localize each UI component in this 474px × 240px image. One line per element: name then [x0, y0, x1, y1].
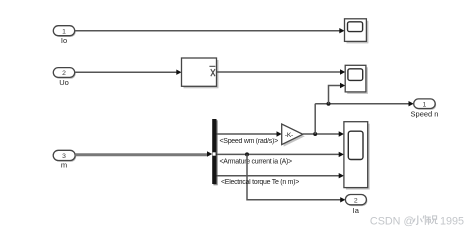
wire junction up to Speed n line: [314, 104, 316, 134]
mean block X-bar: [182, 58, 219, 88]
inport 3 (m): [53, 150, 76, 162]
junction on armature line: [245, 152, 249, 156]
inport 1 (Io): [53, 26, 75, 37]
wire mean block to Scope2 port1: [217, 69, 346, 74]
outport 1 (Speed n): [414, 99, 437, 110]
svg-text:<Speed wm (rad/s)>: <Speed wm (rad/s)>: [220, 138, 279, 145]
thick bus wire m to bus selector: [75, 151, 212, 156]
gain -K-: [282, 124, 305, 147]
svg-text:<Armature current ia (A)>: <Armature current ia (A)>: [220, 158, 293, 165]
svg-text:1: 1: [62, 28, 66, 35]
svg-text:Ia: Ia: [353, 206, 360, 215]
scope Scope1 (top): [345, 19, 369, 44]
junction on Speed n line: [327, 102, 331, 106]
wire Io to Scope1: [75, 28, 345, 33]
wire junction up to Scope2 port2: [329, 83, 346, 104]
svg-text:Io: Io: [61, 36, 67, 45]
svg-text:1: 1: [423, 101, 427, 108]
outport 2 (Ia): [345, 195, 367, 207]
svg-text:2: 2: [62, 70, 66, 77]
inport 2 (Uo): [53, 68, 75, 79]
wire bus output 2 to Scope port2: [217, 152, 344, 157]
scope Scope2 (middle, 2 inputs): [345, 65, 368, 94]
svg-text:<Electrical torque Te (n m)>: <Electrical torque Te (n m)>: [221, 179, 299, 186]
watermark CSDN: [370, 215, 464, 227]
wire Uo to mean block: [75, 70, 182, 75]
wire junction down to outport Ia: [247, 154, 345, 202]
svg-text:Speed n: Speed n: [411, 109, 439, 118]
wire bus output 3 to Scope port3: [217, 173, 344, 178]
svg-text:2: 2: [354, 198, 358, 205]
wire gain to Scope port1: [303, 131, 344, 136]
bus selector: [212, 119, 218, 185]
wire to outport Speed n: [315, 101, 414, 106]
watermark glyph shi: [423, 216, 430, 225]
svg-text:Uo: Uo: [59, 78, 69, 87]
watermark glyph xiao: [414, 216, 423, 225]
svg-text:m: m: [61, 161, 67, 170]
wire bus output 1 to gain: [217, 131, 282, 136]
svg-text:CSDN @: CSDN @: [370, 215, 415, 227]
junction on gain output: [313, 132, 317, 136]
svg-text:3: 3: [62, 153, 66, 160]
watermark glyph xiong: [432, 216, 438, 224]
svg-text:1995: 1995: [440, 215, 464, 227]
svg-text:-K-: -K-: [285, 132, 293, 139]
scope Scope3 (tall, 3 inputs): [344, 122, 370, 190]
